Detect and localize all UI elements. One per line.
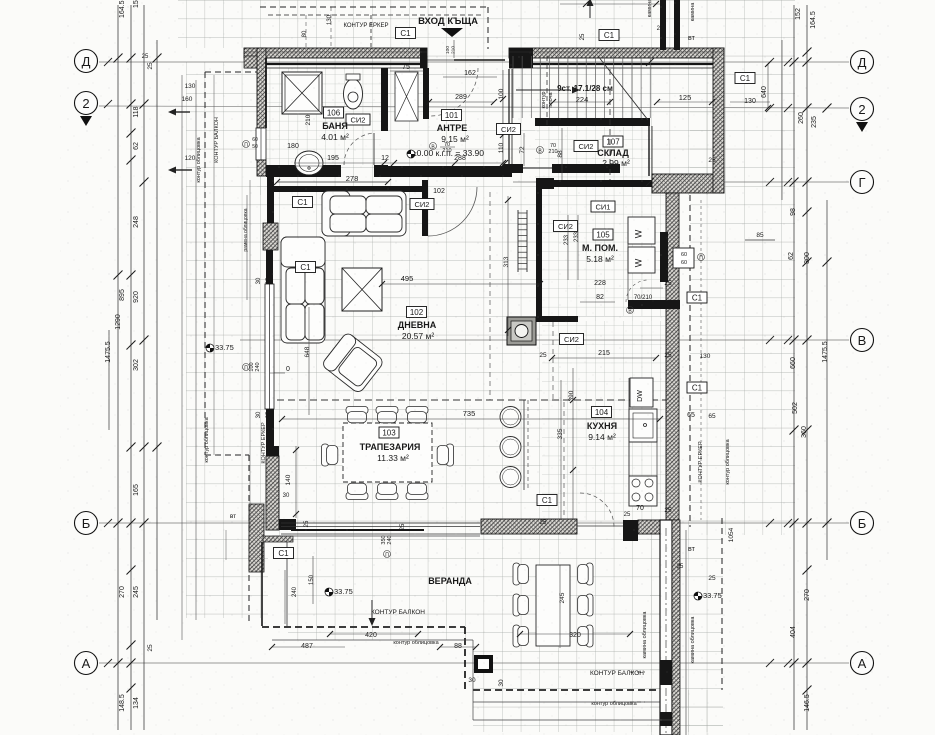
south wall: sliding glass doors bbox=[281, 522, 480, 524]
antre closet bbox=[395, 72, 418, 121]
room 104 kuhnya bbox=[592, 407, 612, 418]
door tags bbox=[430, 143, 437, 150]
mpom south-east L wall bbox=[628, 300, 680, 309]
dim line 125 right bbox=[657, 101, 712, 103]
wall radiator/ladder bbox=[517, 210, 519, 272]
dining chairs bbox=[346, 407, 368, 423]
kontur plocha dashed vertical sklad bbox=[609, 69, 611, 180]
top dim line above chimney bbox=[560, 3, 660, 5]
dim vertical 245 veranda bbox=[559, 565, 561, 648]
room 106 banya bbox=[324, 107, 344, 118]
stairwell west wall bbox=[508, 69, 510, 169]
axis circle 2 bbox=[75, 92, 98, 115]
top-left corner hatch bbox=[244, 56, 266, 68]
arrows small left bbox=[176, 111, 190, 113]
room 102 dnevna bbox=[407, 307, 427, 318]
dim 735 bbox=[282, 418, 660, 420]
axis circle А bbox=[75, 652, 98, 675]
axis circle Г bbox=[851, 171, 874, 194]
room 101 antre bbox=[442, 110, 462, 121]
dim 495 bbox=[382, 283, 540, 285]
axis line D bbox=[99, 61, 849, 63]
corridor dim vertical 313 bbox=[507, 196, 509, 336]
south wall black segment kitchen bbox=[623, 520, 638, 541]
stairs direction arrow bbox=[516, 89, 570, 91]
hatch strip below corner bbox=[263, 536, 293, 542]
axis tick slashes bbox=[766, 58, 774, 66]
dishwasher DW bbox=[630, 378, 653, 407]
living door jamb + arc bbox=[422, 180, 428, 236]
dining table dashed bbox=[343, 423, 432, 482]
exterior top wall bbox=[244, 48, 427, 58]
entrance door jambs bbox=[420, 48, 427, 68]
washbasin bbox=[295, 151, 323, 175]
dim line 224 under stairs bbox=[553, 101, 610, 103]
bay corner black piece bbox=[279, 519, 296, 530]
section triangles under axis-2 circles bbox=[80, 116, 92, 126]
veranda column bbox=[474, 655, 493, 673]
veranda dim lines bbox=[330, 633, 418, 635]
right dimension ruler bbox=[793, 5, 795, 730]
bottom slab lines bbox=[272, 535, 480, 537]
dashed verticals corridor bbox=[489, 192, 491, 400]
veranda cladding contour thin bbox=[272, 639, 473, 641]
chimney bottom: white channel + hatch strip bbox=[660, 520, 672, 735]
axis circle А bbox=[851, 652, 874, 675]
long thin verticals left terrace bbox=[213, 75, 215, 455]
axis line G bbox=[513, 181, 849, 183]
dim vertical 140 dining bbox=[295, 446, 297, 518]
axis circle В bbox=[851, 329, 874, 352]
mpom/kitchen east exterior wall bbox=[666, 193, 679, 520]
room 105 mpom bbox=[593, 229, 613, 240]
veranda left parapet band bbox=[261, 542, 263, 626]
bathroom door arc bbox=[344, 133, 374, 165]
mpom counter line bbox=[627, 217, 629, 300]
antre interior dim verticals bbox=[502, 70, 504, 165]
stairs treads bbox=[512, 56, 514, 118]
bar stools bbox=[500, 407, 521, 428]
shower cabin bbox=[282, 72, 322, 114]
mpom west wall bbox=[536, 178, 542, 321]
sklad/right hatched wall bbox=[652, 174, 724, 193]
left dimension ruler bbox=[117, 5, 119, 730]
right erker contour bbox=[689, 195, 691, 527]
arrow near top stairs bbox=[589, 4, 591, 18]
door 70/210 in antre south wall bbox=[523, 167, 552, 169]
coffee table bbox=[342, 268, 382, 311]
kitchen sink bbox=[629, 409, 657, 442]
dim vertical 648 living bbox=[308, 307, 310, 415]
dim line y74 bbox=[390, 70, 424, 72]
closet side wall bbox=[423, 68, 429, 119]
big west window bbox=[266, 250, 273, 284]
kitchen counter edge line bbox=[628, 378, 630, 506]
antre south wall bbox=[388, 166, 512, 177]
right side small dims bbox=[745, 239, 775, 241]
south wall hatched segment bbox=[481, 519, 577, 534]
exterior left wall (bath) bbox=[257, 48, 266, 128]
axis circle 2 bbox=[851, 98, 874, 121]
direction arrow veranda bbox=[371, 600, 373, 618]
pantry niche wall right of mpom bbox=[660, 232, 668, 282]
920 chain left building edge bbox=[249, 180, 251, 530]
window 60/60 east of mpom bbox=[673, 248, 694, 268]
axis line V bbox=[240, 339, 849, 341]
sklad east thin wall bbox=[648, 126, 650, 176]
veranda table bbox=[536, 565, 570, 646]
washer 2 bbox=[628, 247, 655, 273]
bay outer hatched column bbox=[249, 504, 264, 572]
dim 278 between walls bbox=[277, 181, 388, 183]
floor tile grid regions bbox=[178, 0, 795, 48]
fine tile grids (wet rooms) bbox=[266, 68, 381, 165]
stove 4 plates bbox=[629, 476, 657, 506]
entrance door leaf bbox=[454, 59, 505, 61]
upper floor dashed line across living bbox=[266, 399, 666, 401]
bay (erker) hatched wall bbox=[266, 446, 279, 456]
living west wall upper bbox=[267, 176, 274, 223]
thin line top y52 bbox=[244, 51, 427, 53]
fireplace stove bbox=[507, 317, 536, 345]
kitchen south door gap leaf bbox=[577, 525, 623, 527]
axis line 2 bbox=[99, 106, 849, 108]
bathroom/antre divider wall bbox=[381, 68, 388, 131]
top dim verticals entrance bbox=[453, 40, 455, 58]
horizontal dim line y163 antre bbox=[294, 162, 505, 164]
axis circle Д bbox=[75, 50, 98, 73]
kitchen dim verticals bbox=[560, 380, 562, 520]
veranda right thin line bbox=[685, 530, 687, 735]
axis line B bbox=[99, 522, 849, 524]
chimney top bars bbox=[660, 0, 666, 50]
bath window label bbox=[243, 141, 250, 148]
living north wall bbox=[267, 186, 422, 192]
armchair rotated bbox=[321, 332, 385, 395]
toilet bbox=[344, 79, 363, 109]
veranda left dims bbox=[284, 570, 286, 624]
room 107 sklad bbox=[603, 136, 623, 147]
axis circle Б bbox=[851, 512, 874, 535]
west wall pier below window bbox=[266, 409, 274, 447]
washer 1 bbox=[628, 217, 655, 244]
under-stair wall bbox=[535, 118, 650, 126]
canopy contour (entrance) bbox=[260, 6, 490, 8]
window pier hatched bbox=[263, 223, 278, 250]
right exterior wall (stair block) bbox=[713, 48, 724, 193]
bathroom south wall bbox=[266, 165, 341, 177]
kitchen door arc bbox=[580, 493, 614, 527]
left wall lower (bath) bbox=[257, 160, 266, 176]
dim 215 bbox=[552, 357, 656, 359]
kitchen counter mid bbox=[629, 442, 657, 476]
SI labels bbox=[346, 114, 370, 125]
axis circle Д bbox=[851, 51, 874, 74]
sofa top 3-seat bbox=[322, 191, 406, 236]
C1 labels bbox=[396, 28, 416, 39]
sofa left 2-seat bbox=[281, 237, 325, 343]
mpom dim verticals bbox=[567, 215, 569, 280]
entrance door swing arc bbox=[430, 68, 478, 116]
dim line y99 bbox=[429, 101, 494, 103]
kitchen island edge bbox=[523, 400, 525, 490]
stairs break diagonal bbox=[598, 56, 648, 120]
veranda balcony contour dashed bbox=[262, 626, 465, 628]
window in left bath wall bbox=[256, 128, 266, 160]
kontur plocha dashed bbox=[546, 56, 548, 126]
room 103 trapezariya bbox=[379, 427, 399, 438]
axis line A bbox=[99, 662, 849, 664]
left balcony contour bbox=[204, 72, 206, 455]
sklad south wall bbox=[536, 178, 554, 189]
axis circle Б bbox=[75, 512, 98, 535]
dim vertical 640 right bbox=[767, 64, 769, 108]
